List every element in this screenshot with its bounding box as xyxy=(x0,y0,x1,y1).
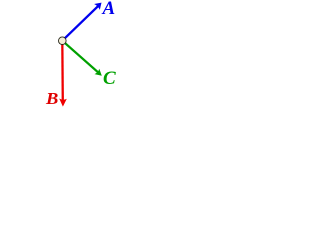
green arrowhead xyxy=(95,69,102,76)
wire: blue shaft xyxy=(62,5,99,41)
blue arrowhead xyxy=(94,3,101,10)
vector B (red, down) xyxy=(59,41,67,107)
node: origin point (cream circle) xyxy=(59,37,67,45)
label A xyxy=(103,0,116,18)
wire: green shaft xyxy=(62,41,99,74)
label C xyxy=(103,69,116,88)
red arrowhead xyxy=(59,99,67,107)
wire: red shaft xyxy=(61,41,64,103)
vector A (blue, up-right) xyxy=(62,3,101,41)
vector C (green, down-right) xyxy=(62,41,102,76)
label B xyxy=(46,91,58,108)
